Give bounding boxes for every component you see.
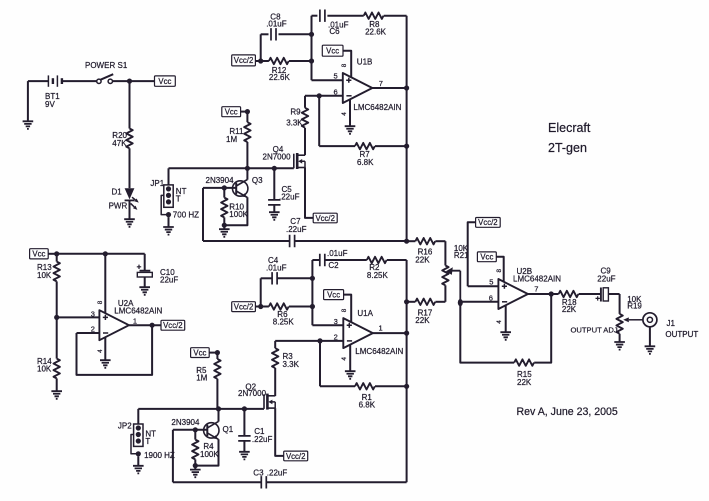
svg-text:Vcc: Vcc — [32, 250, 45, 259]
svg-text:Q1: Q1 — [223, 425, 234, 434]
svg-text:Vcc: Vcc — [225, 108, 238, 117]
svg-text:U1B: U1B — [357, 57, 373, 66]
svg-text:C6: C6 — [329, 27, 340, 36]
svg-text:8.25K: 8.25K — [367, 271, 389, 280]
svg-text:10K: 10K — [37, 271, 52, 280]
svg-text:Vcc: Vcc — [158, 77, 171, 86]
svg-text:22uF: 22uF — [160, 275, 178, 284]
svg-text:C2: C2 — [328, 261, 339, 270]
svg-text:R9: R9 — [290, 108, 301, 117]
svg-text:POWER: POWER — [85, 61, 115, 70]
svg-text:.22uF: .22uF — [252, 435, 273, 444]
svg-text:J1: J1 — [667, 319, 676, 328]
svg-text:T: T — [145, 437, 150, 446]
svg-text:Vcc: Vcc — [327, 290, 340, 299]
svg-text:.22uF: .22uF — [279, 193, 300, 202]
svg-text:7: 7 — [379, 79, 383, 88]
svg-text:700 HZ: 700 HZ — [173, 211, 199, 220]
svg-text:47K: 47K — [112, 139, 127, 148]
svg-text:LMC6482AIN: LMC6482AIN — [353, 103, 401, 112]
svg-text:Elecraft: Elecraft — [548, 121, 591, 135]
svg-text:.01uF: .01uF — [327, 249, 348, 258]
svg-text:T: T — [176, 194, 181, 203]
svg-text:Vcc/2: Vcc/2 — [286, 452, 306, 461]
svg-text:9V: 9V — [45, 100, 55, 109]
svg-text:1M: 1M — [226, 135, 237, 144]
svg-text:LMC6482AIN: LMC6482AIN — [513, 274, 561, 283]
svg-text:2N7000: 2N7000 — [263, 153, 292, 162]
svg-text:OUTPUT ADJ.: OUTPUT ADJ. — [571, 325, 620, 334]
svg-text:LMC6482AIN: LMC6482AIN — [114, 307, 162, 316]
svg-text:5: 5 — [489, 278, 493, 287]
svg-text:Vcc: Vcc — [480, 253, 493, 262]
svg-text:Vcc: Vcc — [326, 47, 339, 56]
svg-text:8: 8 — [496, 269, 503, 273]
svg-text:1M: 1M — [196, 374, 207, 383]
svg-text:8.25K: 8.25K — [273, 318, 295, 327]
svg-text:4: 4 — [341, 112, 348, 116]
svg-text:JP1: JP1 — [150, 179, 164, 188]
svg-text:6.8K: 6.8K — [359, 401, 376, 410]
svg-text:22K: 22K — [415, 255, 430, 264]
svg-text:22uF: 22uF — [597, 275, 615, 284]
svg-text:5: 5 — [334, 72, 338, 81]
svg-text:3: 3 — [334, 317, 338, 326]
svg-text:22.6K: 22.6K — [269, 73, 291, 82]
svg-text:.22uF: .22uF — [267, 469, 288, 478]
svg-text:100K: 100K — [200, 450, 219, 459]
svg-text:.22uF: .22uF — [286, 225, 307, 234]
svg-text:Q3: Q3 — [252, 176, 263, 185]
svg-text:4: 4 — [496, 320, 503, 324]
svg-text:Vcc/2: Vcc/2 — [315, 214, 335, 223]
svg-text:3.3K: 3.3K — [283, 360, 300, 369]
svg-text:Vcc/2: Vcc/2 — [234, 56, 254, 65]
svg-text:U1A: U1A — [357, 309, 373, 318]
svg-text:1: 1 — [133, 316, 137, 325]
svg-text:Vcc/2: Vcc/2 — [234, 302, 254, 311]
svg-text:22K: 22K — [562, 305, 577, 314]
svg-text:2N3904: 2N3904 — [206, 176, 235, 185]
svg-text:22.6K: 22.6K — [365, 28, 387, 37]
svg-text:Vcc/2: Vcc/2 — [163, 321, 183, 330]
svg-text:S1: S1 — [118, 61, 128, 70]
svg-text:22K: 22K — [517, 378, 532, 387]
svg-text:3: 3 — [91, 309, 95, 318]
svg-text:OUTPUT: OUTPUT — [665, 330, 698, 339]
svg-text:7: 7 — [534, 285, 538, 294]
svg-text:4: 4 — [341, 357, 348, 361]
svg-text:3.3K: 3.3K — [286, 119, 303, 128]
svg-text:.01uF: .01uF — [266, 263, 287, 272]
svg-text:C3: C3 — [253, 469, 264, 478]
svg-text:22K: 22K — [415, 316, 430, 325]
svg-text:8: 8 — [341, 63, 348, 67]
svg-text:Vcc: Vcc — [193, 348, 206, 357]
svg-text:2T-gen: 2T-gen — [548, 141, 587, 155]
svg-text:Vcc/2: Vcc/2 — [478, 218, 498, 227]
svg-text:6: 6 — [489, 294, 493, 303]
svg-text:10K: 10K — [37, 365, 52, 374]
svg-text:1900 HZ: 1900 HZ — [144, 451, 175, 460]
svg-text:6: 6 — [334, 87, 338, 96]
svg-text:2N3904: 2N3904 — [171, 418, 200, 427]
svg-text:2N7000: 2N7000 — [238, 389, 267, 398]
svg-text:PWR: PWR — [109, 202, 128, 211]
svg-text:100K: 100K — [229, 210, 248, 219]
svg-text:LMC6482AIN: LMC6482AIN — [355, 347, 403, 356]
svg-text:Rev A, June 23, 2005: Rev A, June 23, 2005 — [517, 406, 618, 418]
svg-text:4: 4 — [97, 349, 104, 353]
svg-text:8: 8 — [97, 300, 104, 304]
svg-text:1: 1 — [379, 323, 383, 332]
svg-text:8: 8 — [341, 308, 348, 312]
svg-text:R19: R19 — [627, 302, 642, 311]
svg-text:6.8K: 6.8K — [357, 158, 374, 167]
svg-text:D1: D1 — [112, 188, 123, 197]
svg-text:.01uF: .01uF — [266, 20, 287, 29]
svg-text:JP2: JP2 — [118, 421, 132, 430]
